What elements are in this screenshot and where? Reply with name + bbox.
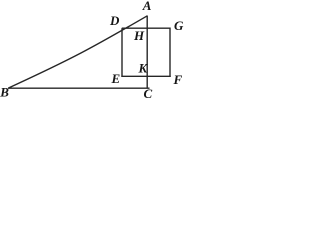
svg-text:E: E xyxy=(111,71,121,86)
svg-text:H: H xyxy=(133,28,145,43)
svg-text:C: C xyxy=(144,86,153,100)
vertical line AC xyxy=(146,16,148,89)
svg-text:F: F xyxy=(173,72,183,87)
square side DG xyxy=(122,27,171,29)
svg-text:K: K xyxy=(138,60,149,75)
svg-text:D: D xyxy=(109,13,120,28)
square side DE xyxy=(121,28,123,77)
square side GF xyxy=(169,28,171,78)
background xyxy=(0,0,184,100)
svg-text:G: G xyxy=(174,18,184,33)
svg-text:B: B xyxy=(0,84,9,99)
square side EF xyxy=(121,75,170,77)
svg-text:A: A xyxy=(142,0,152,13)
base line BC xyxy=(8,87,150,89)
hypotenuse BA xyxy=(9,16,148,88)
